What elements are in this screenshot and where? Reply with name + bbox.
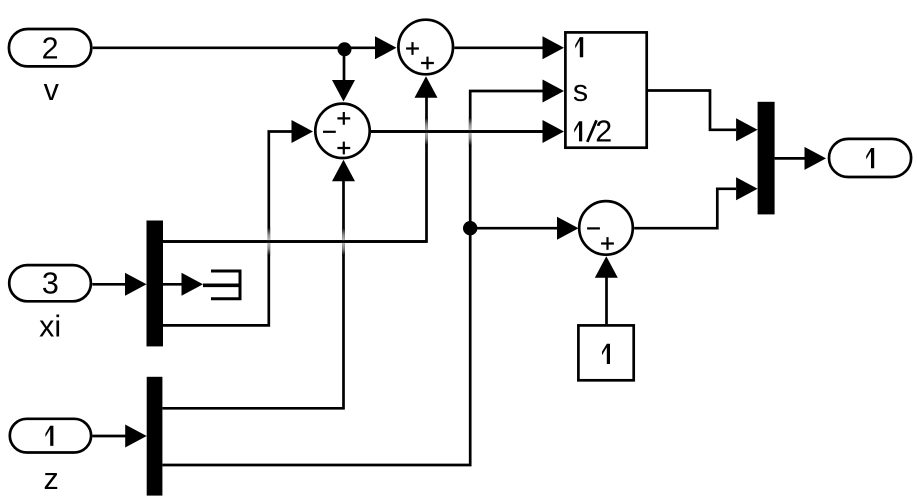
svg-text:xi: xi	[39, 309, 61, 343]
svg-text:3: 3	[42, 267, 59, 301]
svg-text:v: v	[44, 73, 60, 107]
svg-text:2: 2	[42, 32, 59, 66]
svg-text:z: z	[43, 462, 58, 496]
svg-text:s: s	[573, 74, 588, 108]
svg-text:2: 2	[595, 114, 612, 148]
